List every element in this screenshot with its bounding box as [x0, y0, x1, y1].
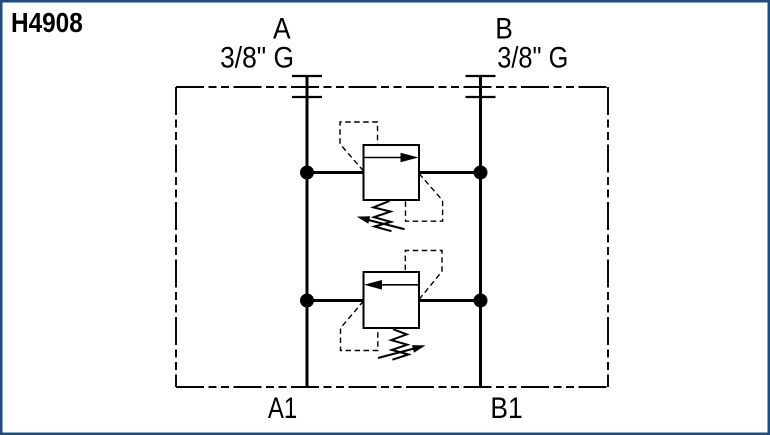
svg-text:3/8" G: 3/8" G — [220, 40, 294, 74]
relief valve RV2 body — [364, 272, 420, 328]
enclosure left edge — [175, 87, 177, 387]
RV1 pilot line (dashed, senses inlet) — [340, 122, 378, 171]
junction node A-RV1 — [300, 166, 314, 180]
RV1 adjustment arrow — [366, 219, 405, 229]
enclosure bottom edge — [176, 386, 608, 388]
port B symbol tick 1 — [466, 75, 496, 77]
relief valve RV2 flow arrow (B to A) — [380, 284, 419, 286]
junction node B-RV1 — [474, 166, 488, 180]
enclosure boundary (dash-dot-dot valve block) top edge — [176, 86, 608, 88]
port B symbol tick 2 — [466, 96, 496, 98]
RV1 drain line (dashed, to outlet) — [406, 174, 443, 222]
port A symbol tick 1 — [292, 75, 322, 77]
port A symbol tick 2 — [292, 96, 322, 98]
svg-text:B1: B1 — [490, 390, 522, 424]
svg-text:3/8" G: 3/8" G — [497, 40, 568, 73]
junction node A-RV2 — [300, 294, 314, 308]
wire: valve RV2 inlet to line B — [419, 299, 481, 302]
enclosure right edge — [607, 87, 609, 387]
svg-text:A1: A1 — [268, 390, 297, 424]
RV2 pilot line (dashed, senses inlet) — [405, 251, 442, 300]
line A (vertical from port A to A1) — [306, 75, 309, 387]
relief valve RV1 body — [364, 145, 420, 200]
svg-text:H4908: H4908 — [11, 6, 83, 38]
wire: line A to valve RV1 inlet — [307, 171, 364, 174]
RV2 spring — [391, 329, 408, 360]
RV2 drain line (dashed, to outlet) — [341, 301, 378, 351]
relief valve RV1 flow arrow (A to B) — [364, 157, 404, 159]
line B (vertical from port B to B1) — [479, 75, 482, 387]
wire: line A to valve RV2 outlet — [307, 299, 364, 302]
RV2 adjustment arrow — [378, 348, 416, 358]
RV1 spring — [373, 201, 391, 231]
junction node B-RV2 — [474, 294, 488, 308]
wire: valve RV1 outlet to line B — [419, 171, 481, 174]
